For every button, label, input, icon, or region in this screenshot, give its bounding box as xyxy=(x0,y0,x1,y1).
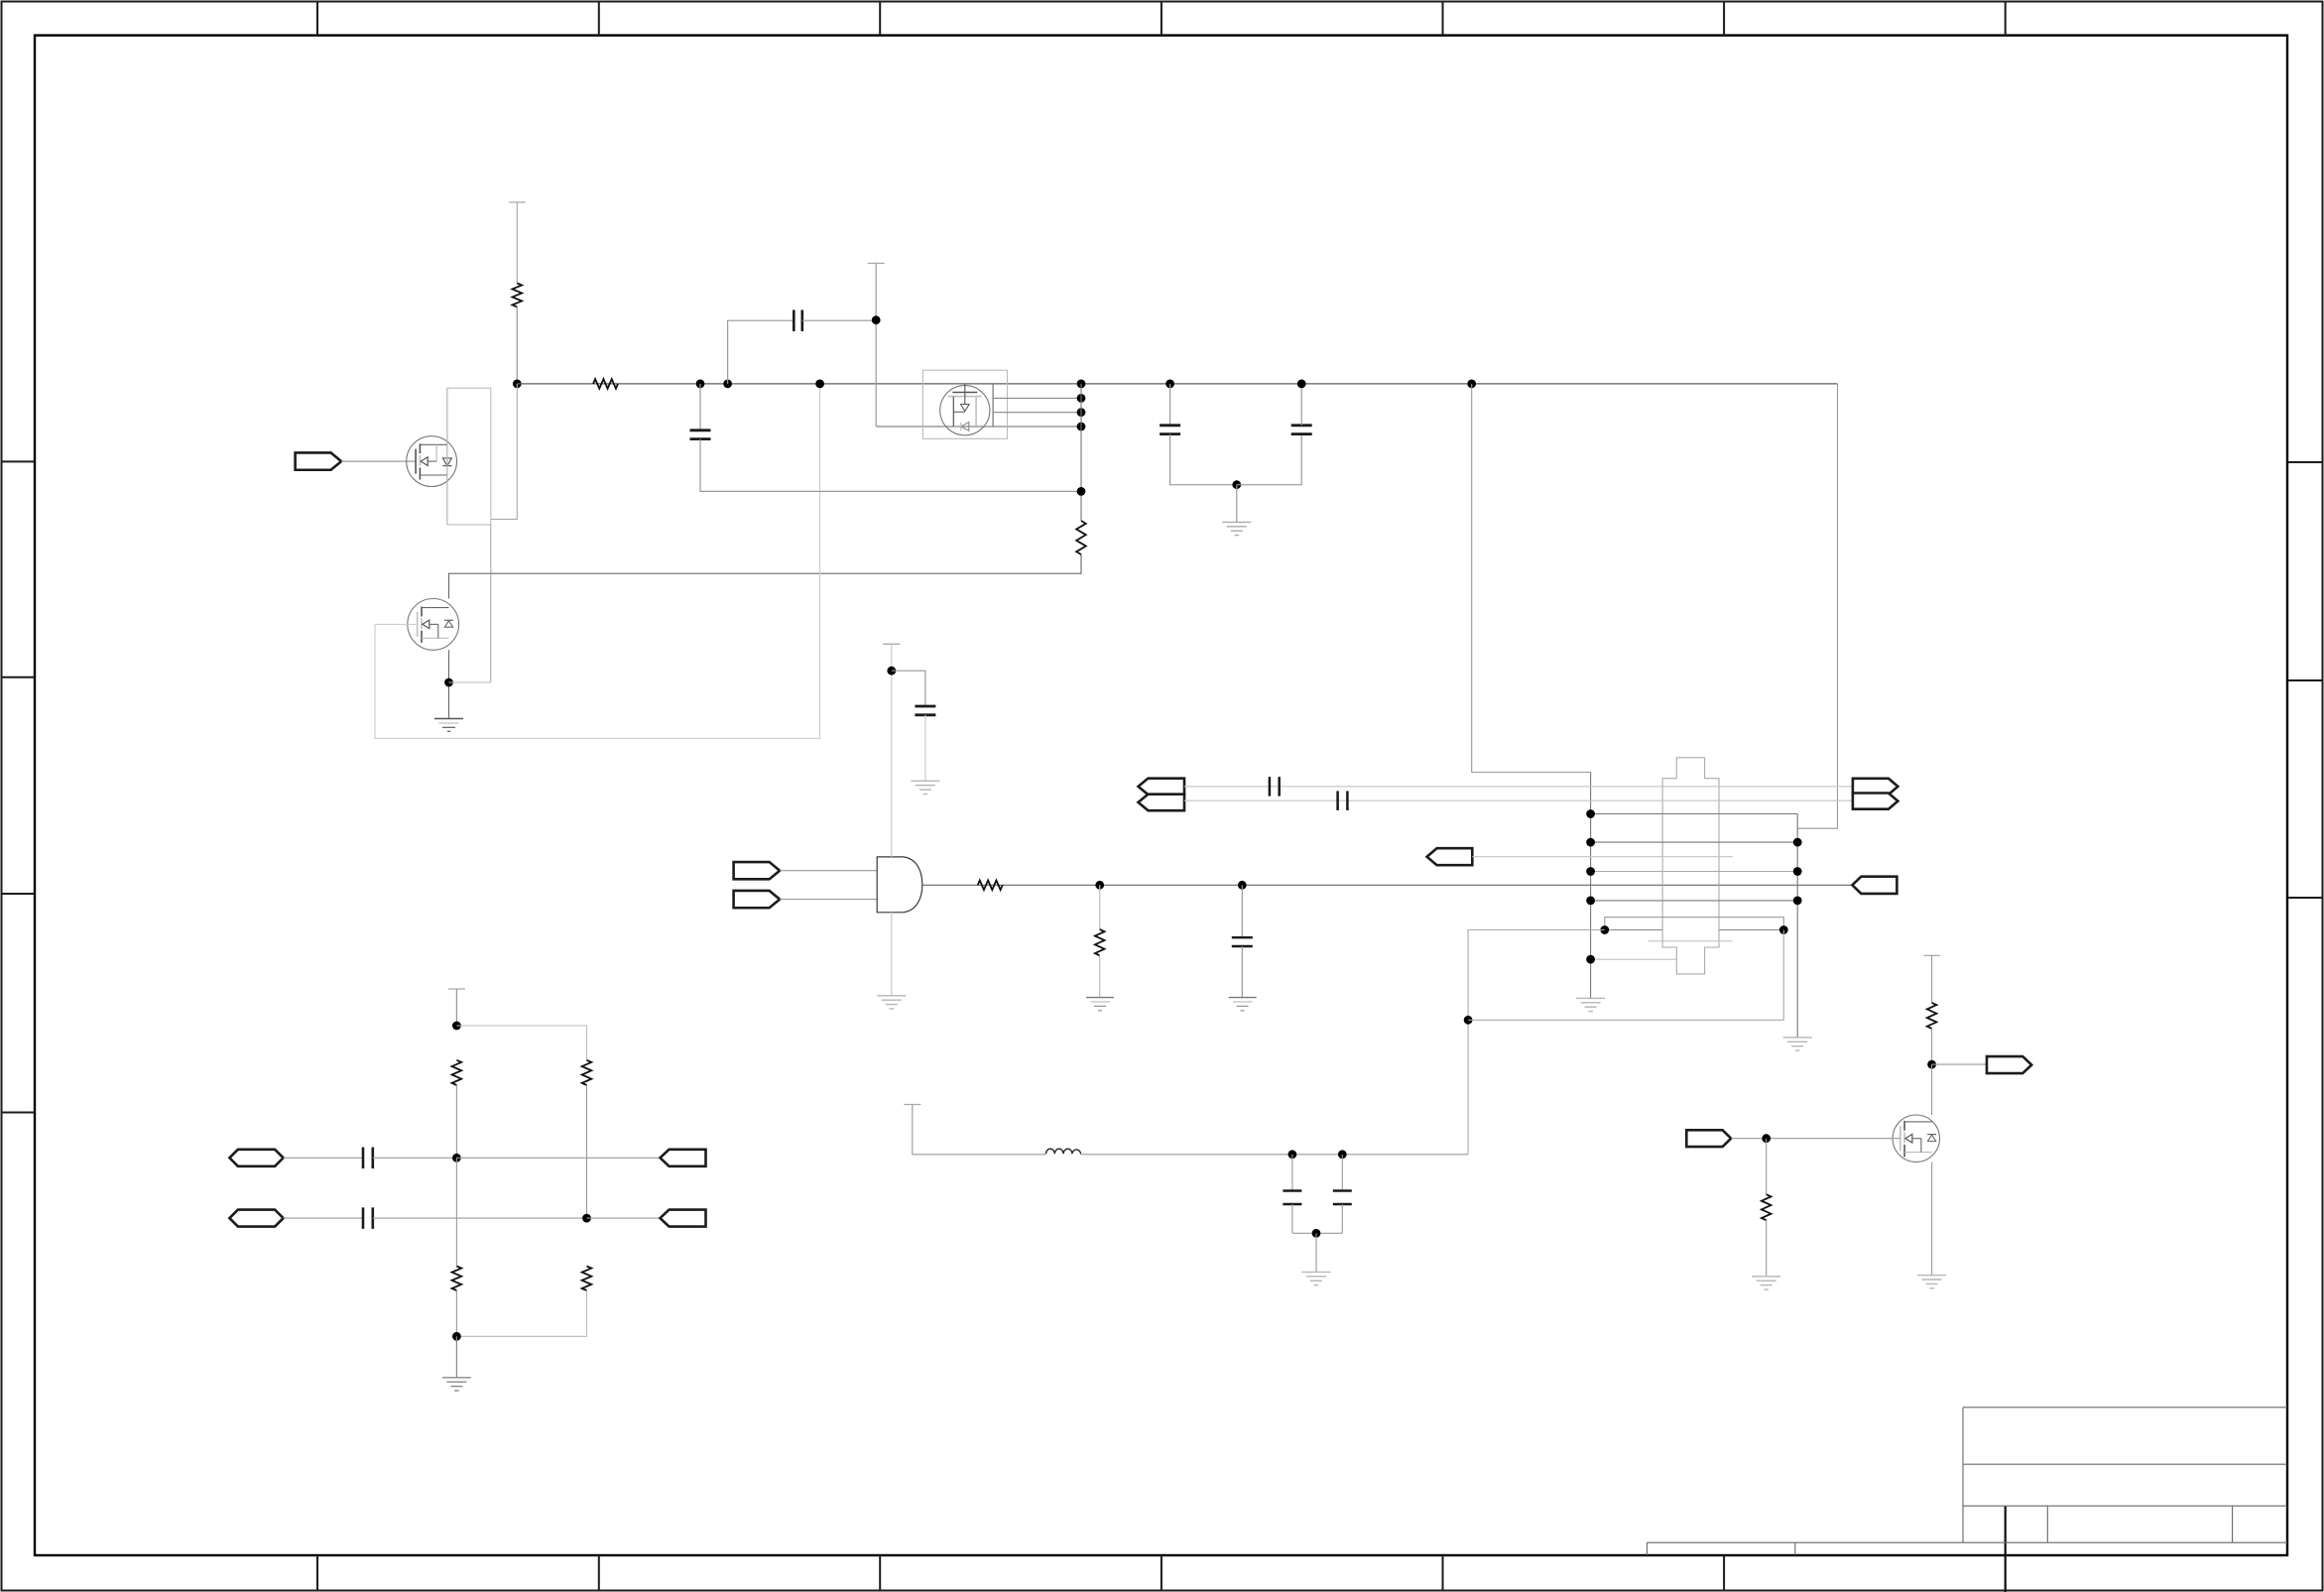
wire P2 to U1 xyxy=(780,870,877,872)
wire C11 bottom xyxy=(1291,1204,1293,1233)
wire node D to ground xyxy=(455,1336,457,1378)
port P5 (pair out +) xyxy=(1139,779,1185,796)
wire VREF down xyxy=(455,989,457,1026)
power pin VPULL xyxy=(1923,954,1940,956)
wire Q2 drain up and right xyxy=(449,554,1082,599)
ground under R4 xyxy=(1086,997,1114,999)
power pin VREF xyxy=(448,988,465,990)
wire R10 to node xyxy=(1931,1029,1933,1064)
wire VIN2 to Q3 source rail xyxy=(876,426,1081,428)
wire R1 to rail xyxy=(516,306,518,384)
resistor R11 xyxy=(1762,1194,1772,1220)
wire left pin rail xyxy=(1590,773,1592,999)
node wrap junction xyxy=(1464,1016,1473,1025)
ground under U1 xyxy=(877,995,906,997)
wire wrap to row5 right xyxy=(1468,930,1783,1021)
connector J1 body xyxy=(1662,758,1719,974)
capacitor C4 xyxy=(1160,424,1180,427)
wire vdd branch to C3 xyxy=(892,671,925,706)
node out-R4 xyxy=(1095,881,1104,890)
wire P3 to U1 xyxy=(780,899,877,901)
port P8 (pair in -) xyxy=(1853,794,1898,809)
wire VIN2 down xyxy=(875,263,877,427)
wire rail to C1 xyxy=(699,384,701,430)
node Q2 source xyxy=(444,678,453,687)
wire P10 to C8 xyxy=(284,1157,363,1159)
wire U1 bottom to ground xyxy=(891,913,893,996)
resistor R2 (series on rail) xyxy=(593,379,618,389)
wire P1 to Q1 gate xyxy=(341,460,416,462)
node out-C10 xyxy=(1238,881,1247,890)
port P9 (config) xyxy=(1427,848,1473,865)
wire node to Q4 drain xyxy=(1931,1064,1933,1115)
node gate-R11 xyxy=(1762,1134,1771,1143)
wire P12 to C9 xyxy=(284,1217,363,1219)
wire J1 row1 xyxy=(1591,813,1798,815)
wire J1 row3 xyxy=(1591,871,1798,873)
right border zone ticks xyxy=(2287,462,2323,898)
capacitor C1 xyxy=(690,429,711,431)
wire VIN1 to R1 xyxy=(516,202,518,284)
node rail-C5 xyxy=(1297,380,1306,389)
power pin VIN2 xyxy=(868,262,885,264)
node VIN2-C2 xyxy=(872,315,881,324)
wire rail to C4 xyxy=(1169,384,1171,426)
capacitor C5 xyxy=(1291,424,1312,427)
resistor R3 xyxy=(1076,521,1086,554)
power pin VDD-U1 xyxy=(883,643,900,645)
wire VOUT-L down xyxy=(913,1105,1046,1155)
node J1 row3 right xyxy=(1793,867,1802,876)
resistor R10 xyxy=(1927,1003,1937,1029)
wire rail corner to right pin rail xyxy=(1797,384,1837,828)
wire node to P14 xyxy=(1932,1063,1987,1065)
resistor R4 xyxy=(1095,929,1105,955)
resistor R7 xyxy=(582,1060,592,1085)
node rail-gatewire xyxy=(815,380,824,389)
wire J1 row4 xyxy=(1591,900,1798,902)
ground under C10 xyxy=(1229,997,1257,999)
capacitor C12 xyxy=(1333,1189,1352,1192)
wire R8 to node D xyxy=(455,1290,457,1336)
wire J1 row5 left stub xyxy=(1605,929,1662,931)
wire VPULL to R10 xyxy=(1931,955,1933,1003)
wire C10 to ground xyxy=(1241,946,1243,998)
capacitor C6 (series) xyxy=(1269,777,1272,796)
port P14 (status out) xyxy=(1987,1056,2031,1073)
wire L1 to caps xyxy=(1080,1154,1468,1156)
wire R7 down xyxy=(586,1085,588,1218)
node pin-rail bottom xyxy=(1586,955,1595,964)
node J1 row5 left xyxy=(1600,925,1609,934)
wire J1 bottom stub light xyxy=(1649,940,1733,942)
node J1 row4 left xyxy=(1586,897,1595,906)
capacitor C9 (series) xyxy=(362,1207,365,1229)
title block xyxy=(1647,1408,2287,1555)
wire wrap net xyxy=(1468,930,1605,1155)
wire node to R11 xyxy=(1766,1139,1768,1195)
wire C12 bottom xyxy=(1341,1204,1343,1233)
wire pair line 1 xyxy=(1184,786,1853,788)
node U1 vdd xyxy=(887,667,896,675)
capacitor C3 xyxy=(915,705,935,708)
wire J1 row5 right stub xyxy=(1719,929,1783,931)
resistor R5 (series) xyxy=(978,881,1003,891)
transistor Q4 (NMOS open-drain) xyxy=(1893,1115,1939,1162)
resistor R8 xyxy=(452,1267,462,1291)
node pullup xyxy=(1927,1060,1936,1069)
main rail wire xyxy=(517,383,1837,385)
wire R9 to node D xyxy=(456,1290,586,1336)
node pin rail 3 xyxy=(1077,408,1086,417)
left border zone ticks xyxy=(2,461,36,1112)
wire P9 to J1 xyxy=(1472,856,1733,858)
wire Q3 pin row 3 xyxy=(993,412,1081,414)
port P4 (output status) xyxy=(1852,877,1896,894)
wire C9 to node C xyxy=(373,1217,587,1219)
wire Q2 gate feed xyxy=(375,384,820,739)
wire mid to C5 xyxy=(1237,434,1301,485)
wire right pin rail xyxy=(1796,814,1798,1038)
node rail-C2 branch xyxy=(723,380,732,389)
wire C5 to rail xyxy=(1300,384,1302,426)
node C row2 xyxy=(582,1214,591,1223)
resistor R9 xyxy=(582,1267,592,1291)
port P3 (gate input B) xyxy=(734,891,781,908)
node pin rail 4 xyxy=(1077,423,1086,431)
resistor R1 xyxy=(513,284,523,307)
ground under R11 xyxy=(1752,1276,1780,1278)
wire rail up to C2 xyxy=(728,320,795,384)
wire pin rail vertical xyxy=(1080,384,1082,521)
wire J1 pin-rail bottom stub xyxy=(1591,958,1677,960)
wire Q4 source down xyxy=(1931,1162,1933,1275)
node B row1 xyxy=(452,1154,461,1163)
ground under Q4 xyxy=(1917,1275,1946,1277)
wire Q2 source down xyxy=(448,650,450,718)
power pin VIN1 xyxy=(509,201,526,203)
resistor R6 xyxy=(452,1060,462,1085)
wire J1 row2 xyxy=(1591,841,1798,843)
wire C3 to ground xyxy=(924,715,926,782)
wire R6 to row1 xyxy=(455,1085,457,1158)
wire J1 row5 bridge xyxy=(1605,918,1784,930)
ground under Q2 xyxy=(434,718,463,720)
wire P15 to Q4 gate xyxy=(1731,1138,1900,1140)
node rail feed-left xyxy=(1467,380,1476,389)
ground under C11-C12 xyxy=(1302,1271,1331,1273)
node D bottom xyxy=(452,1332,461,1341)
transistor Q3 (pass FET) xyxy=(940,384,990,435)
ground under C3 xyxy=(911,780,939,782)
wire C2 to VIN2 node xyxy=(802,319,876,321)
port P11 (out 1) xyxy=(661,1150,706,1166)
node J1 row5 right xyxy=(1779,925,1788,934)
node pin rail feedback xyxy=(1077,487,1086,496)
wire U1 output xyxy=(922,884,1853,886)
wire Q3 pin row 2 xyxy=(993,397,1081,399)
node A top xyxy=(452,1022,461,1031)
node rail-C1 xyxy=(696,380,705,389)
node C4-C5 mid xyxy=(1232,480,1241,489)
wire Q2 source to rect wire xyxy=(449,681,491,683)
bottom border long tick xyxy=(2005,1506,2007,1592)
node J1 row4 right xyxy=(1793,897,1802,906)
wire C1 to feedback xyxy=(700,439,1081,492)
port P13 (out 2) xyxy=(661,1210,706,1227)
node J1 row2 left xyxy=(1586,838,1595,847)
wire R11 to ground xyxy=(1766,1220,1768,1277)
wire VDD to U1 top xyxy=(891,644,893,857)
port P6 (pair out -) xyxy=(1139,795,1185,811)
top border zone ticks xyxy=(317,2,2006,36)
ground bottom-left xyxy=(442,1377,471,1379)
port P10 (in 1) xyxy=(229,1150,283,1166)
wire Q3 right-side vertical xyxy=(992,384,994,427)
node J1 row3 left xyxy=(1586,867,1595,876)
wire node B down xyxy=(455,1158,457,1266)
wire to R4 xyxy=(1099,885,1101,929)
transistor Q2 (NMOS) xyxy=(408,599,459,651)
port P7 (pair in +) xyxy=(1853,779,1898,795)
port P12 (in 2) xyxy=(229,1210,283,1227)
node rail-C4 xyxy=(1165,380,1174,389)
ground under right pin rail xyxy=(1783,1037,1812,1039)
capacitor C8 (series) xyxy=(362,1148,365,1169)
wire top cross xyxy=(456,1026,586,1060)
capacitor C11 xyxy=(1283,1189,1301,1192)
wire C11 lead xyxy=(1291,1155,1293,1191)
node J1 row2 right xyxy=(1793,838,1802,847)
wire row1 to P11 xyxy=(456,1157,660,1159)
wire C8 to node B xyxy=(373,1157,457,1159)
wire pair line 2 xyxy=(1184,799,1853,801)
AND gate U1 xyxy=(877,857,922,913)
ground under left pin rail xyxy=(1576,997,1605,999)
wire rect right edge down xyxy=(490,525,492,682)
node pin rail 2 xyxy=(1077,394,1086,403)
node J1 row1 left xyxy=(1586,809,1595,818)
ground under C4-C5 xyxy=(1222,521,1251,523)
wire row2 to P13 xyxy=(587,1217,661,1219)
transistor Q3 body outline xyxy=(922,370,1007,438)
wire rail drop to rect xyxy=(491,384,518,520)
wire rail to left pin rail xyxy=(1472,384,1591,773)
wire caps common xyxy=(1292,1232,1342,1234)
power pin VOUT-L xyxy=(904,1104,920,1106)
capacitor C7 (series) xyxy=(1336,791,1339,810)
wire C12 lead xyxy=(1341,1155,1343,1191)
capacitor C2 xyxy=(793,309,795,331)
port P2 (gate input A) xyxy=(734,862,781,879)
wire caps mid to ground xyxy=(1315,1233,1317,1272)
node rail-C11 xyxy=(1288,1150,1297,1159)
transistor Q1 (PMOS high-side) xyxy=(407,436,457,487)
wire R4 to ground xyxy=(1099,955,1101,997)
wire C4 down xyxy=(1170,434,1237,485)
capacitor C10 xyxy=(1232,936,1253,938)
wire to C10 xyxy=(1241,885,1243,937)
wire mid to ground xyxy=(1236,485,1238,523)
node caps mid xyxy=(1312,1229,1321,1238)
port P15 (control in) xyxy=(1686,1130,1731,1147)
node rail-R1 xyxy=(513,380,522,389)
port P1 (enable input) xyxy=(296,452,342,469)
node rail-C12 xyxy=(1338,1150,1347,1159)
node pin rail 1 xyxy=(1077,380,1086,389)
wire Q1 drain-source vertical xyxy=(446,388,448,525)
load switch body outline xyxy=(447,388,491,525)
bottom border zone ticks xyxy=(317,1555,1724,1591)
inductor L1 xyxy=(1046,1149,1081,1154)
